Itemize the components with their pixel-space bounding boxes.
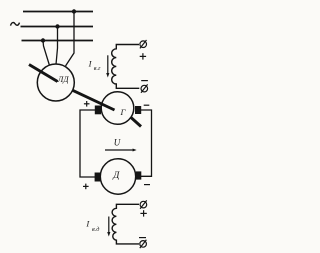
brush G left <box>95 106 101 115</box>
current arrow I v.g <box>106 55 109 77</box>
svg-text:U: U <box>114 138 121 148</box>
minus sign G coil <box>141 80 148 82</box>
brush D left <box>95 173 101 182</box>
shaft segment LD to G center <box>73 90 115 110</box>
junction dot on L1 <box>72 9 76 13</box>
drive motor LD circle <box>37 64 74 101</box>
plus sign at D left <box>83 184 89 190</box>
bus line L1 <box>23 11 93 13</box>
minus sign D coil <box>139 237 146 239</box>
wire from L1 to motor LD <box>66 12 75 67</box>
wire from L3 to motor LD <box>43 41 50 66</box>
junction dot on L2 <box>55 24 59 28</box>
field coil of G (top right) <box>112 45 140 89</box>
junction dot on L3 <box>41 38 45 42</box>
svg-text:в.г: в.г <box>94 65 101 72</box>
plus sign G coil <box>140 53 146 59</box>
plus sign at G left <box>84 101 90 107</box>
brush G right <box>135 106 141 114</box>
current arrow I v.d <box>107 217 110 237</box>
motor D circle <box>100 159 135 194</box>
shaft segment into LD <box>29 65 58 82</box>
bus line L2 <box>21 26 94 28</box>
generator G circle <box>101 92 134 125</box>
svg-text:в.д: в.д <box>92 226 99 233</box>
minus sign at G right <box>144 104 150 106</box>
armature wire right (G to D) <box>140 110 152 176</box>
minus sign at D right <box>144 184 150 186</box>
terminal top of G coil <box>140 40 147 48</box>
armature wire left (G to D) <box>80 110 96 177</box>
wire from L2 to motor LD <box>56 27 58 65</box>
plus sign D coil <box>140 210 146 216</box>
brush D right <box>136 171 142 179</box>
field coil of D (bottom right) <box>112 204 139 244</box>
terminal top of D coil <box>140 200 147 208</box>
AC source symbol ~ <box>11 23 20 26</box>
terminal bottom of G coil <box>141 84 148 92</box>
arrow U <box>105 149 137 152</box>
svg-text:Д: Д <box>112 170 120 181</box>
bus line L3 <box>22 40 94 42</box>
svg-text:ЛД: ЛД <box>57 75 70 84</box>
terminal bottom of D coil <box>140 240 147 248</box>
shaft stub after G <box>131 118 141 127</box>
